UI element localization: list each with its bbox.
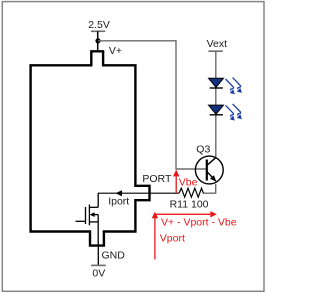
annotation Vbe arrow (red)	[173, 170, 179, 193]
LED D2	[209, 105, 224, 115]
wire Q3 emitter to resistor	[203, 184, 216, 193]
svg-text:Vbe: Vbe	[179, 177, 198, 189]
svg-text:Q3: Q3	[196, 143, 210, 155]
wire PORT node (pin to resistor, through notch)	[98, 192, 179, 194]
transistor M1 (internal NMOS current sink)	[76, 193, 99, 245]
wire V+ to Q3 base (gray L wire)	[98, 41, 206, 169]
ground bar	[91, 264, 106, 266]
svg-text:2.5V: 2.5V	[88, 19, 110, 31]
node junction dot	[95, 38, 100, 43]
svg-text:V+: V+	[109, 45, 122, 57]
wire 2.5V lead	[97, 31, 99, 51]
junction Iport current arrow	[115, 190, 122, 196]
LED D2 light rays	[226, 104, 242, 121]
wire LED chain	[215, 51, 217, 158]
supply Vext bar	[208, 50, 222, 52]
svg-text:R11 100: R11 100	[170, 199, 209, 211]
wire GND lead	[97, 246, 99, 266]
svg-text:Vext: Vext	[207, 38, 228, 50]
supply 2.5V bar	[91, 30, 105, 32]
border frame	[2, 2, 264, 292]
svg-text:Iport: Iport	[108, 196, 129, 208]
chip outline U1 (package boundary with pin notches)	[31, 51, 150, 245]
svg-text:PORT: PORT	[142, 173, 172, 185]
LED D1	[209, 78, 224, 88]
svg-text:GND: GND	[102, 249, 126, 261]
svg-text:0V: 0V	[92, 267, 105, 279]
annotation resistor-drop arrow (red, horizontal)	[155, 211, 217, 217]
LED D1 light rays	[226, 78, 242, 95]
transistor Q3	[195, 156, 223, 184]
annotation Vport arrow (red, vertical)	[152, 212, 158, 260]
resistor R11	[179, 188, 203, 197]
svg-text:V+ - Vport - Vbe: V+ - Vport - Vbe	[161, 216, 237, 228]
svg-text:Vport: Vport	[160, 232, 185, 244]
